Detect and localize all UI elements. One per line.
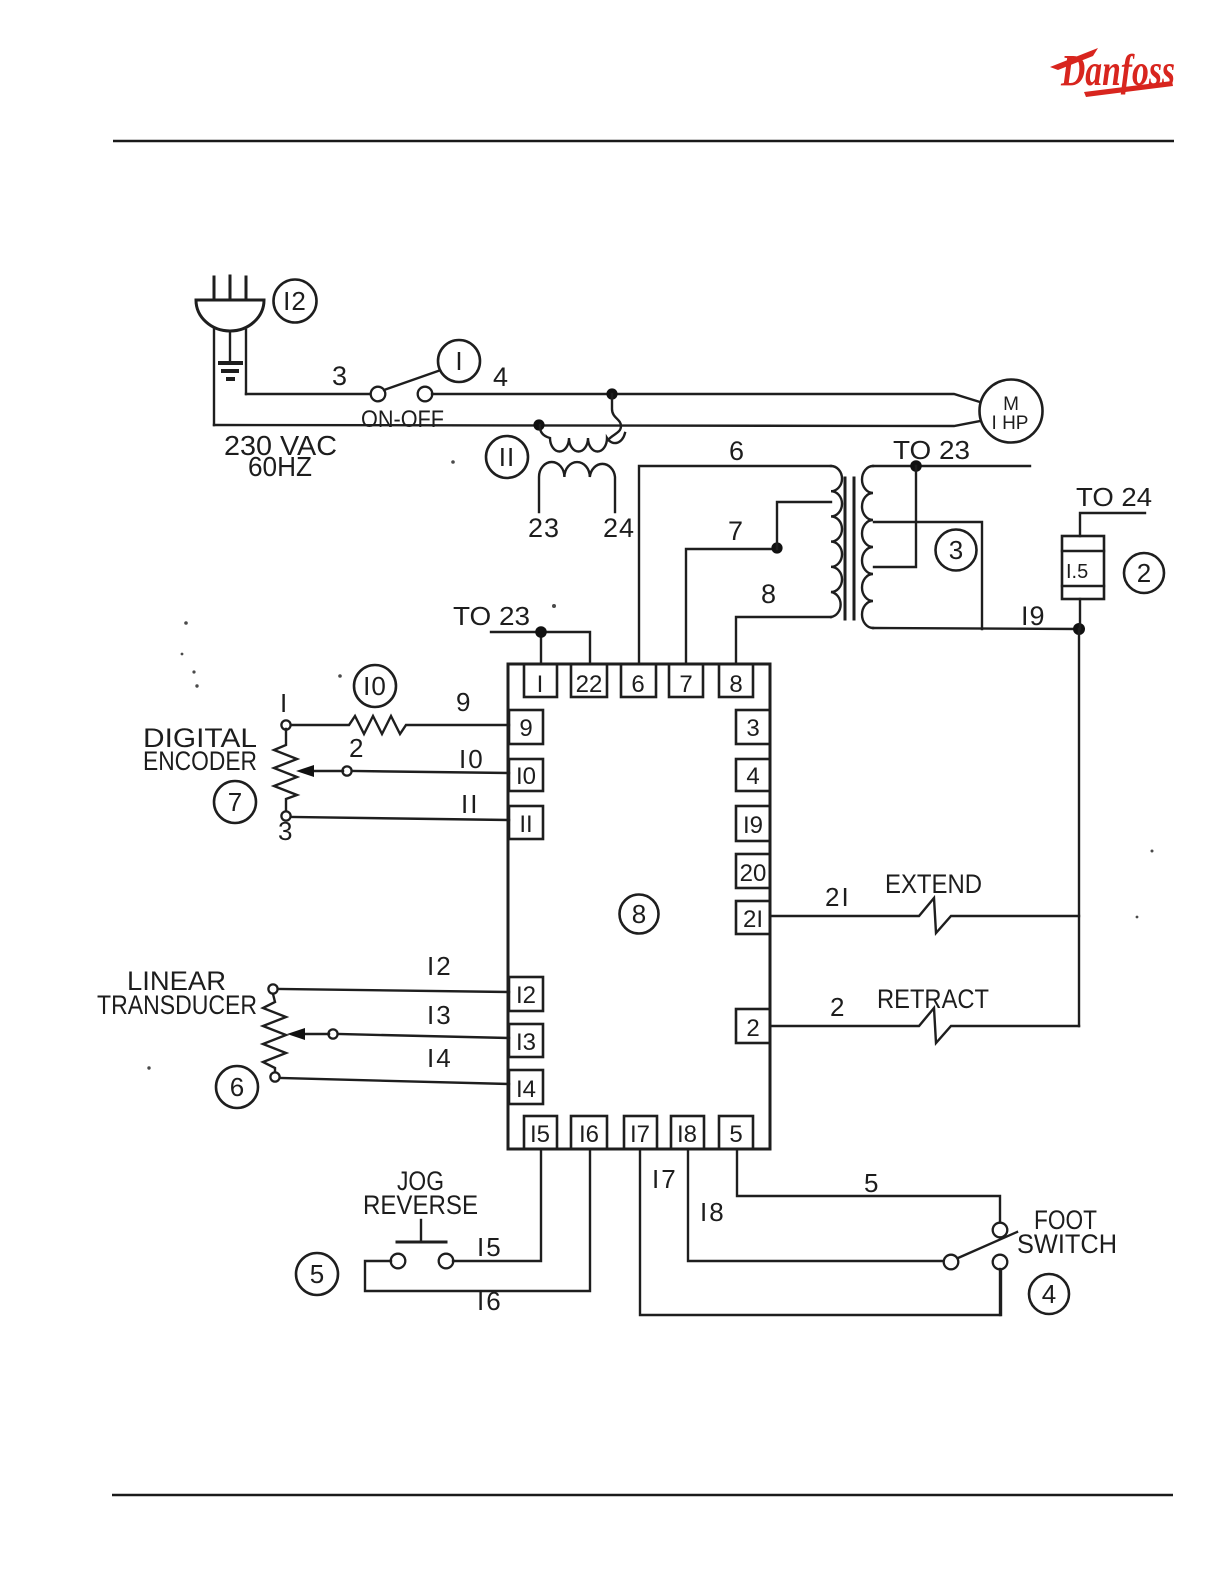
pin 19: [736, 806, 770, 841]
transducer pot terminal top: [268, 984, 277, 993]
ref circle 3: [936, 530, 977, 571]
svg-text:24: 24: [603, 513, 635, 543]
svg-text:7: 7: [679, 671, 692, 698]
plug P12 body: [196, 300, 264, 331]
wire 21 EXTEND: [770, 898, 1079, 933]
svg-text:I7: I7: [630, 1121, 650, 1148]
svg-text:I0: I0: [459, 744, 485, 774]
ref circle 4: [1029, 1274, 1069, 1314]
svg-text:I.5: I.5: [1066, 561, 1088, 583]
wire 18: [688, 1149, 944, 1261]
svg-text:20: 20: [740, 860, 767, 887]
wire 13: [338, 1034, 509, 1038]
wire 16: [365, 1149, 590, 1291]
svg-text:ENCODER: ENCODER: [143, 746, 257, 776]
pin 22: [571, 664, 607, 697]
pin 1: [524, 664, 557, 697]
encoder pot terminal 1: [281, 720, 290, 729]
svg-text:4: 4: [1042, 1279, 1056, 1309]
svg-text:9: 9: [456, 687, 470, 717]
wire 8: [736, 617, 831, 664]
svg-text:6: 6: [729, 436, 744, 466]
pin 15: [524, 1116, 557, 1149]
pin 2: [736, 1009, 770, 1043]
pin 7: [669, 664, 703, 697]
foot switch S4 lead: [999, 1269, 1001, 1315]
scan specks: [147, 460, 1153, 1070]
svg-text:9: 9: [519, 715, 532, 742]
pushbutton PB5 contact right: [439, 1254, 454, 1269]
svg-text:I4: I4: [427, 1043, 453, 1073]
wire 12: [278, 989, 509, 992]
neutral wire 230VAC: [214, 421, 980, 426]
transformer T11 secondary: [539, 462, 615, 512]
transducer pot wiper: [328, 1029, 337, 1038]
ref circle 6: [216, 1066, 258, 1108]
junction TO23 pin1: [535, 626, 547, 638]
right rail wire: [1078, 629, 1080, 1026]
svg-text:I8: I8: [677, 1121, 697, 1148]
svg-text:SWITCH: SWITCH: [1017, 1229, 1117, 1259]
pin 14: [509, 1070, 543, 1104]
pin 18: [671, 1116, 704, 1149]
fuse F2 body: [1062, 536, 1104, 599]
pin 13: [509, 1024, 543, 1057]
fuse F2 lead top: [1080, 513, 1145, 536]
svg-text:4: 4: [493, 362, 508, 392]
svg-text:5: 5: [729, 1121, 742, 1148]
svg-text:8: 8: [632, 899, 646, 929]
svg-text:REVERSE: REVERSE: [363, 1190, 478, 1220]
svg-text:3: 3: [746, 715, 759, 742]
svg-text:6: 6: [230, 1072, 244, 1102]
wire 5: [737, 1149, 1000, 1222]
pin1 wire: [540, 632, 542, 664]
foot switch S4 contact top: [993, 1223, 1008, 1238]
svg-text:I2: I2: [427, 951, 453, 981]
svg-text:I0: I0: [363, 671, 387, 701]
transformer T3 left coil: [831, 466, 842, 617]
junction on neutral: [533, 419, 544, 430]
controller U8 body: [508, 664, 770, 1149]
pin 20: [736, 854, 770, 888]
wire 17: [640, 1149, 1001, 1315]
T3 tap to dot: [874, 466, 916, 567]
pin 9: [509, 710, 543, 744]
svg-text:I2: I2: [283, 286, 307, 316]
fuse F2 lead bottom: [1079, 599, 1081, 629]
ref circle 2: [1124, 553, 1164, 593]
svg-text:II: II: [519, 811, 532, 838]
ref circle 7: [214, 781, 256, 823]
svg-text:I2: I2: [516, 982, 536, 1009]
svg-text:5: 5: [864, 1168, 878, 1198]
svg-text:7: 7: [728, 516, 743, 546]
ref circle 8: [620, 895, 659, 934]
svg-text:I0: I0: [516, 763, 536, 790]
ref circle 12: [274, 280, 317, 323]
svg-text:8: 8: [761, 579, 776, 609]
svg-text:I9: I9: [743, 812, 763, 839]
svg-text:5: 5: [310, 1259, 324, 1289]
wire 4: [432, 394, 980, 402]
plug lead center (ground lead): [229, 331, 231, 362]
wire 2 RETRACT: [770, 1008, 1079, 1043]
svg-text:I8: I8: [700, 1197, 726, 1227]
transformer T3 core: [844, 478, 847, 619]
svg-text:TO 23: TO 23: [453, 601, 530, 631]
junction 19: [1073, 623, 1085, 635]
svg-text:ON-OFF: ON-OFF: [361, 406, 444, 433]
svg-text:6: 6: [631, 671, 644, 698]
wire 11: [291, 817, 509, 820]
pin 4: [736, 759, 770, 791]
svg-text:23: 23: [528, 513, 560, 543]
wire 19: [873, 628, 1079, 629]
svg-text:60HZ: 60HZ: [248, 451, 312, 482]
switch S1 contact right: [418, 387, 433, 402]
ref circle 1: [438, 340, 480, 382]
plug lead right (line): [245, 330, 247, 394]
encoder pot terminal 3: [281, 811, 290, 820]
svg-text:I4: I4: [516, 1076, 536, 1103]
pin 3: [736, 710, 770, 744]
wire 3: [246, 393, 371, 395]
wire 14: [280, 1078, 509, 1084]
pin 8: [719, 664, 753, 697]
svg-text:TO 24: TO 24: [1076, 482, 1152, 512]
junction on wire 4: [606, 388, 617, 399]
svg-text:7: 7: [228, 787, 242, 817]
transformer T3 right coil: [862, 466, 873, 628]
svg-text:2I: 2I: [825, 882, 851, 912]
pin 11: [509, 806, 543, 839]
plug lead left (neutral): [213, 329, 215, 425]
svg-text:I HP: I HP: [992, 413, 1029, 434]
svg-text:I9: I9: [1021, 601, 1046, 631]
encoder pot wiper: [342, 766, 351, 775]
foot switch S4 contact bottom: [993, 1255, 1008, 1270]
wire 7: [686, 549, 777, 664]
svg-text:3: 3: [332, 361, 347, 391]
bottom rule: [112, 1494, 1173, 1497]
T3 tap upper: [874, 522, 982, 629]
ground: [218, 361, 243, 365]
ref circle 10: [354, 665, 396, 707]
pin 10: [509, 759, 543, 791]
svg-text:2: 2: [1137, 558, 1151, 588]
svg-text:I5: I5: [530, 1121, 550, 1148]
pin 12: [509, 977, 543, 1011]
switch S1 contact left: [371, 387, 386, 402]
svg-text:II: II: [461, 789, 479, 819]
svg-text:RETRACT: RETRACT: [877, 984, 989, 1014]
ref circle 5: [296, 1253, 338, 1295]
pin 21: [736, 901, 770, 934]
transformer T11 primary drop: [608, 394, 621, 440]
transducer pot element: [263, 994, 286, 1073]
pushbutton PB5 actuator: [397, 1241, 446, 1244]
foot switch S4 blade: [958, 1232, 1017, 1258]
pin 17: [624, 1116, 657, 1149]
svg-text:2: 2: [349, 733, 363, 763]
svg-text:2: 2: [830, 992, 844, 1022]
ref circle 11: [486, 436, 528, 478]
svg-text:EXTEND: EXTEND: [885, 869, 982, 899]
pin 16: [571, 1116, 607, 1149]
svg-text:I: I: [455, 346, 462, 376]
svg-text:2I: 2I: [743, 906, 763, 933]
svg-text:TRANSDUCER: TRANSDUCER: [97, 990, 257, 1020]
top rule: [113, 140, 1174, 143]
svg-text:I6: I6: [477, 1286, 503, 1316]
svg-text:2: 2: [746, 1015, 759, 1042]
svg-text:8: 8: [729, 671, 742, 698]
svg-text:I3: I3: [427, 1000, 453, 1030]
svg-text:3: 3: [949, 535, 963, 565]
plug P12 prongs: [213, 277, 216, 300]
svg-text:TO 23: TO 23: [893, 435, 970, 465]
svg-text:I3: I3: [516, 1029, 536, 1056]
wire 7 tap: [777, 502, 831, 549]
svg-text:I: I: [280, 688, 287, 718]
transducer pot terminal bottom: [270, 1072, 279, 1081]
wire 6: [639, 466, 831, 664]
svg-text:I7: I7: [652, 1164, 678, 1194]
motor M: [980, 380, 1043, 443]
wire 15: [453, 1149, 541, 1261]
pin 5: [719, 1116, 753, 1149]
pushbutton PB5 contact left: [391, 1254, 406, 1269]
pin 6: [621, 664, 656, 697]
junction TO 23: [910, 460, 922, 472]
transformer T11 primary: [540, 425, 625, 452]
wire 10: [352, 771, 509, 773]
encoder pot element: [274, 729, 297, 812]
svg-text:I5: I5: [477, 1232, 503, 1262]
svg-text:I: I: [537, 671, 544, 698]
svg-text:M: M: [1003, 394, 1019, 415]
svg-text:4: 4: [746, 763, 759, 790]
junction wire 7: [771, 542, 782, 553]
switch S1 blade: [384, 371, 438, 390]
svg-text:II: II: [499, 442, 515, 472]
svg-text:I6: I6: [579, 1121, 599, 1148]
resistor R10: [291, 716, 509, 734]
foot switch S4 common: [944, 1255, 959, 1270]
svg-text:3: 3: [278, 816, 292, 846]
net TO 23 top lead: [873, 465, 1030, 467]
net TO 23 at pin 1: [491, 632, 590, 664]
svg-text:22: 22: [576, 671, 603, 698]
Danfoss logo: [1050, 46, 1175, 97]
